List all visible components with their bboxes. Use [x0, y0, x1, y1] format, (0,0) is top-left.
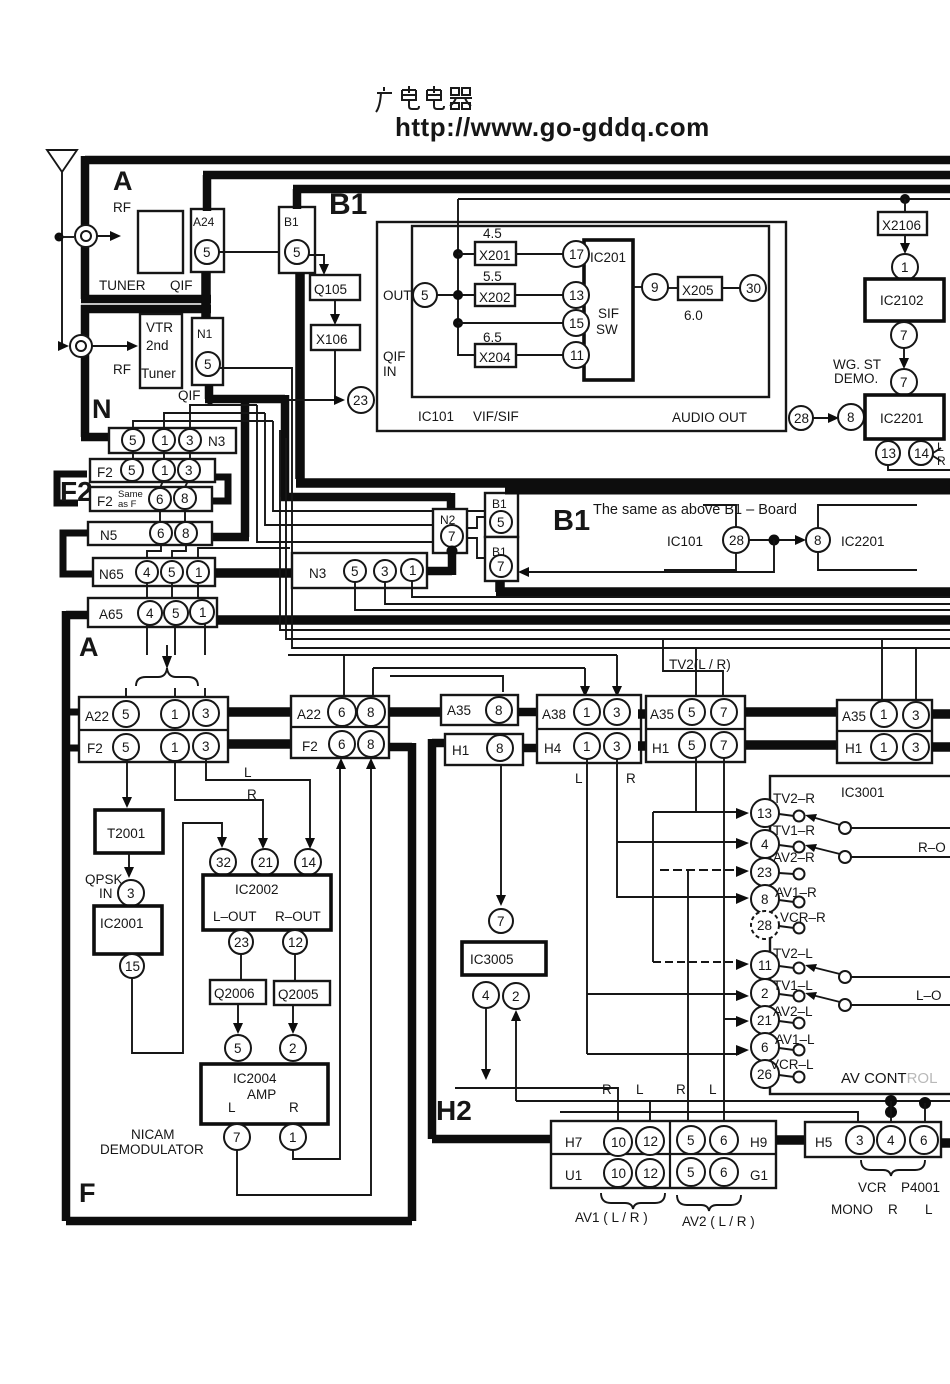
- svg-text:23: 23: [353, 393, 368, 408]
- brace AV2: [677, 1195, 741, 1211]
- svg-text:7: 7: [497, 559, 505, 574]
- svg-text:U1: U1: [565, 1168, 582, 1183]
- pin 5 of A65: [164, 601, 188, 625]
- pin 7 of B1 lower: [490, 555, 512, 577]
- pin 4 of N65: [136, 561, 158, 583]
- wire thick H1#3 to edge: [932, 742, 950, 752]
- pin 2 of IC2004: [280, 1035, 306, 1061]
- svg-text:1: 1: [171, 707, 179, 722]
- svg-text:VCR: VCR: [858, 1180, 887, 1195]
- svg-text:10: 10: [611, 1166, 626, 1181]
- op-amp IC2004 AMP: [201, 1064, 328, 1124]
- pin 6 of A22#2: [328, 698, 356, 726]
- svg-text:11: 11: [570, 348, 584, 363]
- wire arrow into A38-3: [612, 686, 622, 697]
- pin 4 of IC3005: [473, 982, 499, 1008]
- svg-text:R: R: [247, 787, 257, 802]
- VTR 2nd tuner box: [140, 314, 182, 388]
- pin 8 of F2 row2: [174, 487, 196, 509]
- svg-text:14: 14: [301, 855, 317, 870]
- wire bus down to N2 (x255): [265, 413, 433, 525]
- svg-text:IC2002: IC2002: [235, 882, 279, 897]
- pin 5 of F2 row1: [121, 459, 143, 481]
- svg-text:T2001: T2001: [107, 826, 145, 841]
- wire N3-1 up and right bus: [164, 413, 265, 429]
- pin 1 of H4: [574, 733, 600, 759]
- svg-text:3: 3: [202, 706, 210, 721]
- pin 3 of F2: [193, 733, 219, 759]
- pin 2 TV1-L: [751, 979, 779, 1007]
- svg-text:8: 8: [495, 703, 503, 718]
- wire N2 to B1-5 step: [467, 517, 485, 528]
- wire lineB across with H7-12 drop: [516, 1101, 950, 1121]
- wire X106 to pin 23: [335, 350, 338, 400]
- svg-text:5: 5: [688, 705, 696, 720]
- wire H1#2-7 down to pin 21 and H7-6: [724, 758, 736, 1122]
- svg-text:R: R: [626, 771, 636, 786]
- wire arrow into A38-1: [580, 686, 590, 697]
- wire N1 junction to pin23 line: [210, 399, 334, 401]
- svg-text:7: 7: [720, 705, 728, 720]
- wire F2-3 L line to pin14: [206, 760, 310, 840]
- svg-text:28: 28: [757, 918, 772, 933]
- svg-text:QPSK: QPSK: [85, 872, 123, 887]
- pin 23 of IC2002: [229, 930, 253, 954]
- svg-text:3: 3: [912, 740, 920, 755]
- pin 21 of IC2002: [252, 849, 278, 875]
- svg-text:3: 3: [613, 739, 621, 754]
- svg-text:Tuner: Tuner: [141, 366, 176, 381]
- pin 5 of A22: [113, 701, 139, 727]
- switch contact 28: [779, 926, 794, 928]
- svg-text:Q2005: Q2005: [278, 987, 319, 1002]
- svg-text:IN: IN: [383, 364, 397, 379]
- pin 5 of F2: [113, 734, 139, 760]
- svg-text:as F: as F: [118, 499, 137, 510]
- wire bus line b7 to A35-8: [390, 676, 503, 692]
- svg-text:H9: H9: [750, 1135, 767, 1150]
- pin 13 TV2-R: [751, 799, 779, 827]
- pin 5 IC101 out: [413, 283, 437, 307]
- pin 5 of A35#2: [679, 699, 705, 725]
- wire A24 to top bus: [203, 175, 950, 211]
- wire bus line b4 with drops: [292, 478, 950, 700]
- wire bus line b6 A22-8 to A38-1: [373, 668, 585, 698]
- wire N2 to B1-7 step: [467, 538, 485, 558]
- wire thick H5 to edge: [941, 1138, 950, 1148]
- node dot mini: [769, 535, 780, 546]
- svg-text:F2: F2: [302, 739, 318, 754]
- svg-text:H5: H5: [815, 1135, 832, 1150]
- svg-text:DEMODULATOR: DEMODULATOR: [100, 1142, 204, 1157]
- pin 1 of IC2102: [892, 254, 918, 280]
- pin 15 of IC2001: [120, 954, 144, 978]
- wire arrow into pin 8: [736, 893, 749, 904]
- wire arrow into pin 13: [736, 808, 749, 819]
- node dot 15 row: [453, 318, 463, 328]
- pin 30: [740, 275, 766, 301]
- svg-text:6: 6: [338, 705, 346, 720]
- svg-text:5: 5: [687, 1133, 695, 1148]
- wire dot down and arrow into B1-7: [526, 540, 774, 572]
- svg-text:30: 30: [746, 281, 761, 296]
- svg-text:1: 1: [161, 463, 169, 478]
- wire A-board bottom edge: [81, 295, 211, 304]
- svg-text:H2: H2: [436, 1095, 472, 1126]
- pin 15: [563, 310, 589, 336]
- svg-text:Q2006: Q2006: [214, 986, 255, 1001]
- pin 8 AV1-R: [751, 885, 779, 913]
- pin 3 of A35#3: [903, 702, 929, 728]
- connector A38/H4 strip: [537, 695, 641, 763]
- wire thick F2 row to F2#2: [228, 739, 291, 749]
- node dot X202 row: [453, 290, 463, 300]
- VTR 2nd tuner RF jack (double circle): [70, 335, 92, 357]
- svg-text:5: 5: [168, 565, 176, 580]
- wire N65 to N3 strip2 thick: [215, 568, 292, 578]
- wire 28 to 8 with arrow: [749, 539, 798, 541]
- wire lineA to H7-10: [455, 1088, 618, 1121]
- switch contact 26: [779, 1075, 794, 1077]
- connector H7/U1 strip: [551, 1121, 776, 1188]
- svg-text:H4: H4: [544, 741, 562, 756]
- svg-text:13: 13: [881, 446, 896, 461]
- op-amp IC3005: [462, 942, 546, 975]
- wire thick A35 to A38: [518, 708, 537, 717]
- switch arm R1 with arrow: [812, 817, 840, 825]
- svg-text:9: 9: [651, 280, 659, 295]
- pin 23 QIF IN of IC101: [348, 387, 374, 413]
- svg-text:DEMO.: DEMO.: [834, 371, 878, 386]
- wire bracket N5 to N65 left: [63, 533, 93, 574]
- svg-text:X202: X202: [479, 290, 511, 305]
- wire F2-1 R line to pin21: [175, 761, 263, 840]
- svg-text:H7: H7: [565, 1135, 582, 1150]
- svg-text:4: 4: [143, 565, 151, 580]
- svg-text:A24: A24: [193, 215, 215, 229]
- pin 7 of H1#2: [711, 732, 737, 758]
- svg-text:IC2201: IC2201: [841, 534, 885, 549]
- connector N2: [433, 509, 467, 553]
- wire thick H7 strip to H5 strip: [776, 1135, 805, 1145]
- svg-text:AMP: AMP: [247, 1087, 276, 1102]
- wire pin 23 feed from H7-5 column: [687, 869, 689, 1122]
- switch contact 6: [779, 1048, 794, 1050]
- wire R-OUT line 2: [851, 856, 950, 858]
- svg-text:IC3001: IC3001: [841, 785, 885, 800]
- wire mini board top thick: [505, 488, 950, 495]
- wire Q2006 arrow to pin5: [237, 1004, 239, 1026]
- wire thick A35#2 to A35#3: [745, 707, 837, 717]
- svg-text:6.5: 6.5: [483, 330, 502, 345]
- svg-text:IC101: IC101: [418, 409, 454, 424]
- wire into N65-1 from right: [198, 548, 290, 561]
- svg-text:VCR–L: VCR–L: [770, 1057, 814, 1072]
- node thick junction A38-A35 top: [638, 709, 649, 719]
- wire bus line b2: [280, 430, 950, 630]
- svg-text:2: 2: [761, 986, 769, 1001]
- svg-text:13: 13: [757, 806, 772, 821]
- node junction below N1: [206, 396, 215, 405]
- pin 7 of IC3005: [489, 909, 513, 933]
- svg-text:6: 6: [761, 1040, 769, 1055]
- svg-text:RF: RF: [113, 200, 131, 215]
- switch contact 8: [779, 900, 794, 902]
- svg-text:7: 7: [497, 914, 505, 929]
- transistor Q105: [310, 275, 360, 300]
- svg-text:IN: IN: [99, 886, 113, 901]
- connector A35/H1 strip2: [646, 696, 745, 762]
- node dot lineB H5-6: [919, 1097, 931, 1109]
- svg-text:21: 21: [757, 1013, 772, 1028]
- switch arm L1: [812, 967, 840, 974]
- op-amp IC2102: [865, 279, 944, 321]
- brace AV1: [601, 1193, 665, 1209]
- switch contact 23: [779, 873, 794, 874]
- svg-text:1: 1: [583, 739, 591, 754]
- wire N3-5 up and right bus: [133, 421, 273, 429]
- pin 1 of IC2004: [280, 1124, 306, 1150]
- pin 1 of A38: [574, 699, 600, 725]
- wire 15 row: [458, 322, 563, 324]
- pin 3 of H4: [604, 733, 630, 759]
- wire arrow into pin 23: [736, 866, 749, 877]
- node junction dot on antenna line: [55, 233, 64, 242]
- svg-text:5: 5: [421, 288, 429, 303]
- wire arrow into pin 6: [736, 1045, 749, 1056]
- IC101 block inner outline: [412, 226, 769, 397]
- wire Q105 to X106: [334, 300, 336, 318]
- switch contact 11: [779, 966, 794, 968]
- wire thin top line to X2106: [458, 199, 950, 248]
- svg-text:3: 3: [127, 886, 135, 901]
- svg-text:6.0: 6.0: [684, 308, 703, 323]
- svg-text:17: 17: [569, 247, 584, 262]
- pin 10 of H7: [604, 1128, 632, 1156]
- svg-text:13: 13: [569, 288, 584, 303]
- pin 5 of N1: [196, 352, 220, 376]
- svg-text:R: R: [937, 454, 946, 468]
- pin 3 of A22: [193, 700, 219, 726]
- svg-text:6: 6: [720, 1165, 728, 1180]
- svg-text:8: 8: [182, 526, 190, 541]
- wire bus line b3 with TV2 jog and A35#3 drop: [286, 438, 950, 700]
- svg-text:15: 15: [569, 316, 584, 331]
- pin 4 TV1-R: [751, 830, 779, 858]
- pin 8 of N5: [175, 522, 197, 544]
- svg-text:F2: F2: [60, 476, 93, 507]
- svg-text:1: 1: [195, 565, 203, 580]
- wire N1 up through band to A24: [201, 272, 211, 318]
- svg-text:L: L: [575, 771, 583, 786]
- pin 5 of N3: [122, 429, 144, 451]
- connector N65: [93, 558, 215, 586]
- connector N3 (left stack): [109, 428, 236, 453]
- svg-text:X204: X204: [479, 350, 511, 365]
- svg-text:5: 5: [122, 707, 130, 722]
- svg-text:A65: A65: [99, 607, 123, 622]
- wire TV2 feed down to pin 11 dashed: [652, 812, 654, 962]
- svg-text:N5: N5: [100, 528, 117, 543]
- svg-text:5: 5: [172, 606, 180, 621]
- pin 9: [642, 274, 668, 300]
- wire antenna to RF jack A: [59, 236, 74, 238]
- wire IC101 pin5 to X202 with bus: [437, 294, 475, 296]
- pin 8 mini: [806, 528, 830, 552]
- svg-text:14: 14: [914, 446, 930, 461]
- pin 3 of A38: [604, 699, 630, 725]
- wire thick A35#3 to edge: [932, 709, 950, 719]
- pin 5 of N65: [161, 561, 183, 583]
- wire X205 to pin 30: [722, 287, 740, 289]
- pin 5 of B1 connector: [285, 240, 309, 264]
- svg-text:L: L: [925, 1202, 933, 1217]
- svg-text:AV2–R: AV2–R: [773, 850, 815, 865]
- svg-text:IC2001: IC2001: [100, 916, 144, 931]
- wire thick F2#2 to F board edge corner: [66, 743, 412, 1221]
- svg-text:R–O: R–O: [918, 840, 946, 855]
- node dot lineB lower: [885, 1106, 897, 1118]
- switch common L2: [839, 999, 851, 1011]
- svg-text:6: 6: [720, 1133, 728, 1148]
- svg-text:R–OUT: R–OUT: [275, 909, 321, 924]
- pin 11 TV2-L: [751, 951, 779, 979]
- svg-text:7: 7: [448, 529, 456, 544]
- pin 5 of IC2004: [225, 1035, 251, 1061]
- pin 7 of IC2102: [891, 322, 917, 348]
- wire IC201 to pin 9: [633, 286, 642, 288]
- pin 12 of IC2002: [283, 930, 307, 954]
- wire A65 right thick bus to edge: [217, 615, 950, 625]
- svg-text:L: L: [228, 1100, 236, 1115]
- RF input jack A (double circle): [75, 225, 97, 247]
- svg-text:MONO: MONO: [831, 1202, 873, 1217]
- wire IC101 mini rails: [664, 505, 736, 570]
- connector A35/H1 strip3: [837, 700, 932, 763]
- svg-text:F2: F2: [97, 494, 113, 509]
- connector A65: [88, 598, 217, 627]
- wire thick A22 row to A22#2: [228, 707, 291, 717]
- pin 7 of IC2004: [224, 1124, 250, 1150]
- svg-text:28: 28: [794, 411, 809, 426]
- pin 11: [563, 342, 589, 368]
- svg-text:Q105: Q105: [314, 282, 347, 297]
- pin 12 of U1: [636, 1159, 664, 1187]
- pin 3 of F2 row1: [178, 459, 200, 481]
- pin 4 of A65: [138, 601, 162, 625]
- wire bus down to N2 (x246): [257, 405, 433, 542]
- wire thick A22#2 to A35 box: [389, 707, 441, 717]
- svg-text:6: 6: [920, 1133, 928, 1148]
- wire B1 connector to top bus: [293, 189, 950, 209]
- pin 17: [563, 241, 589, 267]
- pin 8 of IC2201: [838, 404, 864, 430]
- svg-text:X201: X201: [479, 248, 511, 263]
- svg-text:L: L: [636, 1082, 644, 1097]
- wire bus line b0b from N3#2-3: [385, 582, 950, 604]
- wire N-board bottom stub to N3: [81, 433, 110, 442]
- svg-text:TV1–R: TV1–R: [773, 823, 815, 838]
- wire arrow pin7 to WG ST DEMO: [903, 348, 905, 360]
- svg-text:5: 5: [122, 740, 130, 755]
- pin 28 audio out of IC101: [789, 406, 813, 430]
- switch contact 13: [779, 814, 794, 816]
- wire thick stub left A22 row: [66, 709, 79, 716]
- transformer T2001: [95, 810, 163, 853]
- wire N65 pins to A65 pins ticks: [147, 583, 198, 602]
- svg-text:TV2–R: TV2–R: [773, 791, 815, 806]
- svg-text:L: L: [937, 440, 944, 454]
- svg-text:A22: A22: [85, 709, 109, 724]
- pin 6 of F2 row2: [149, 488, 171, 510]
- svg-text:B1: B1: [553, 505, 590, 537]
- svg-text:RF: RF: [113, 362, 131, 377]
- pin 8 of H1 single: [487, 735, 513, 761]
- pin 3 of N3: [179, 429, 201, 451]
- pin 6 of H9: [710, 1126, 738, 1154]
- svg-text:QIF: QIF: [383, 349, 406, 364]
- svg-text:4.5: 4.5: [483, 226, 502, 241]
- svg-text:3: 3: [613, 705, 621, 720]
- pin 32 of IC2002: [210, 849, 236, 875]
- svg-text:3: 3: [856, 1133, 864, 1148]
- svg-text:IC101: IC101: [667, 534, 703, 549]
- connector B1 pin7 (lower): [485, 537, 518, 581]
- pin 12 of H7: [636, 1127, 664, 1155]
- svg-text:3: 3: [186, 433, 194, 448]
- pin 5 of H9: [677, 1126, 705, 1154]
- wire H4-3 R feed to pins 4 and 8: [617, 759, 738, 897]
- wire A24 pin5 to B1 pin5: [218, 251, 286, 253]
- svg-text:23: 23: [234, 935, 249, 950]
- wire R-OUT line 1: [851, 827, 950, 829]
- svg-text:H1: H1: [652, 741, 669, 756]
- svg-text:8: 8: [181, 491, 189, 506]
- wire N-board left edge: [81, 305, 90, 437]
- svg-text:AV CONTROL: AV CONTROL: [841, 1070, 937, 1087]
- wire arrow RF jack N to VTR tuner: [92, 345, 131, 347]
- svg-text:TV2–L: TV2–L: [773, 946, 813, 961]
- wire bracket F2 row1 to row2 right side: [212, 477, 228, 501]
- svg-text:1: 1: [583, 705, 591, 720]
- brace VCR: [861, 1160, 925, 1176]
- svg-text:L–OUT: L–OUT: [213, 909, 257, 924]
- svg-text:H1: H1: [452, 743, 469, 758]
- wire pin14 L bracket: [933, 448, 941, 461]
- svg-text:G1: G1: [750, 1168, 768, 1183]
- wire bus line b5 to A22-6 and A38-3: [288, 655, 617, 698]
- pin 14 of IC2201: [909, 441, 933, 465]
- svg-text:IC2102: IC2102: [880, 293, 924, 308]
- wire X204 row: [516, 354, 563, 356]
- svg-text:QIF: QIF: [170, 278, 193, 293]
- pin 4 of H5: [877, 1126, 905, 1154]
- svg-text:5: 5: [293, 245, 301, 260]
- pin 6 of N5: [150, 522, 172, 544]
- svg-text:1: 1: [901, 260, 909, 275]
- pin 5 of A24: [195, 240, 219, 264]
- wire thick H2 left border: [432, 739, 551, 1139]
- pin 6 AV1-L: [751, 1033, 779, 1061]
- svg-text:F: F: [79, 1178, 96, 1208]
- svg-text:X106: X106: [316, 332, 348, 347]
- switch contact 21: [779, 1021, 794, 1023]
- wire dot to X2106: [904, 199, 906, 212]
- pin 28 VCR-R: [751, 911, 779, 939]
- svg-text:4: 4: [887, 1133, 895, 1148]
- switch common R2: [839, 851, 851, 863]
- svg-text:4: 4: [761, 837, 769, 852]
